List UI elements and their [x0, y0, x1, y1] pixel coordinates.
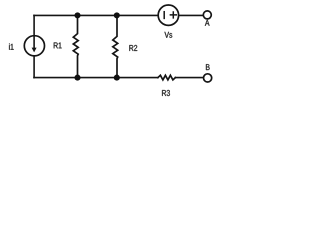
label R2 [129, 45, 137, 51]
current source i1 arrow shaft [33, 36, 35, 49]
junction dot bottom of R2 [114, 75, 120, 81]
wire left vertical: top corner down to i1 top [33, 15, 35, 36]
wire bottom: left corner to R3 [34, 77, 158, 79]
Vs minus terminal bar [163, 12, 165, 19]
wire left vertical: i1 bottom to bottom corner [33, 56, 35, 78]
label A [205, 20, 210, 26]
terminal node A circle [203, 11, 211, 19]
label R1 [54, 43, 62, 49]
label i1 [9, 44, 14, 50]
resistor R2 (vertical, leads + zigzag) [113, 15, 118, 77]
wire bottom: R3 to node B [175, 77, 203, 79]
wire top: left corner to Vs left terminal [34, 14, 158, 16]
label B [206, 64, 210, 70]
voltage source Vs circle [158, 5, 178, 25]
junction dot top of R2 [114, 12, 120, 18]
label R3 [162, 90, 170, 96]
current source i1 arrowhead [32, 48, 37, 53]
terminal node B circle [204, 74, 212, 82]
resistor R1 (vertical, leads + zigzag) [73, 15, 78, 77]
wire top: Vs right terminal to node A [179, 14, 204, 16]
junction dot top of R1 [74, 12, 80, 18]
Vs plus sign [170, 12, 176, 18]
resistor R3 (horizontal zigzag) [158, 75, 176, 80]
junction dot bottom of R1 [74, 75, 80, 81]
label Vs [165, 32, 173, 38]
current source i1 circle [24, 36, 44, 56]
